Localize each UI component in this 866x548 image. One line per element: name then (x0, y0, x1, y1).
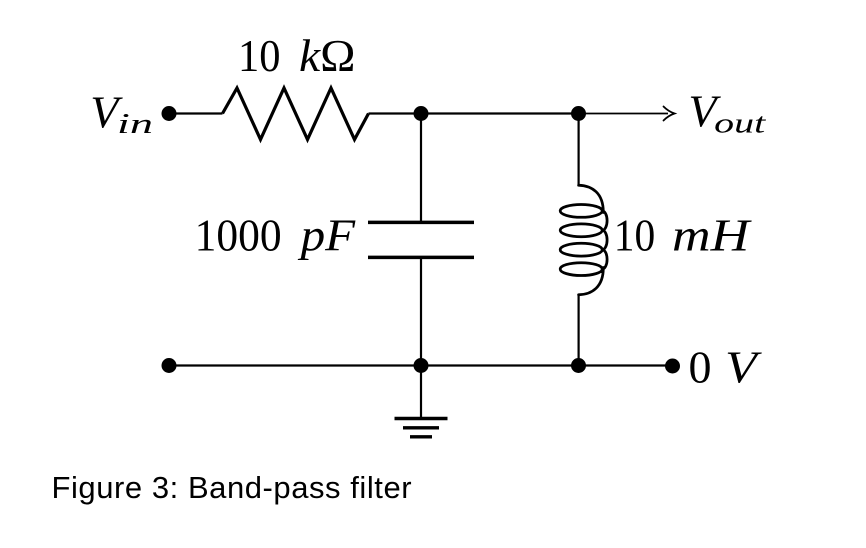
wire bottom rail 0V net (169, 364, 673, 366)
wire node A down to capacitor C1 top plate (420, 114, 422, 223)
value label 10 mH for L1 (614, 209, 753, 260)
resistor R1 zigzag (223, 88, 369, 140)
svg-text:0: 0 (689, 342, 712, 393)
wire node B to output arrow (579, 113, 669, 115)
value label 10 kOhm for R1 (238, 30, 356, 81)
caption Figure 3: Band-pass filter (52, 470, 413, 505)
node Vin label (90, 87, 153, 141)
junction node C (bottom of capacitor C1, ground tap) (414, 358, 429, 373)
wire node C down to ground symbol (420, 366, 422, 418)
value label 1000 pF for C1 (195, 209, 356, 260)
svg-text:1000: 1000 (195, 209, 282, 260)
junction node B (top of inductor L1) (571, 106, 586, 121)
svg-text:in: in (117, 108, 153, 140)
svg-text:10: 10 (614, 209, 656, 260)
input terminal node Vin (162, 106, 177, 121)
wire inductor L1 bottom to node D (577, 294, 579, 366)
wire capacitor C1 bottom plate down to node C (420, 257, 422, 365)
junction node A (top of capacitor C1) (414, 106, 429, 121)
wire node A to node B (top junction of L1) (421, 112, 579, 114)
svg-text:mH: mH (672, 209, 753, 260)
wire R1 to node A (top junction of C1) (369, 112, 422, 114)
svg-text:10: 10 (238, 30, 281, 81)
wire Vin terminal to resistor R1 (169, 112, 223, 114)
capacitor C1 bottom plate (368, 256, 474, 260)
inductor L1 coil (560, 185, 607, 295)
wire node B down to inductor L1 (577, 114, 579, 187)
ground symbol (395, 419, 448, 437)
svg-text:V: V (725, 342, 762, 393)
svg-text:pF: pF (297, 209, 356, 260)
capacitor C1 top plate (368, 221, 474, 225)
svg-text:out: out (714, 108, 766, 140)
svg-text:kΩ: kΩ (299, 30, 356, 81)
output arrowhead (664, 107, 675, 121)
svg-text:Figure 3: Band-pass filter: Figure 3: Band-pass filter (52, 470, 413, 505)
node Vout label (688, 86, 766, 140)
terminal node 0V (665, 359, 680, 374)
bottom-left terminal node (162, 358, 177, 373)
net label 0 V (689, 342, 763, 393)
junction node D (bottom of inductor L1) (571, 358, 586, 373)
